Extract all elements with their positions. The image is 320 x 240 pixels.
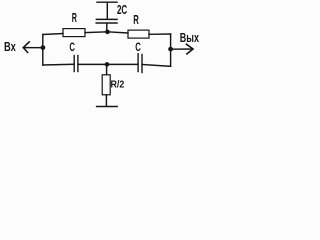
svg-text:R: R xyxy=(72,11,77,25)
capacitor 2C bottom plate xyxy=(96,22,117,24)
node dot left input junction xyxy=(41,45,46,50)
svg-text:R: R xyxy=(133,13,139,27)
capacitor C1 left plate xyxy=(73,56,75,72)
svg-text:C: C xyxy=(135,42,141,54)
capacitor 2C top lead xyxy=(106,3,108,19)
capacitor C1 right plate xyxy=(77,56,79,72)
wire bottom line left segment xyxy=(43,63,74,66)
resistor R2 (top right box) xyxy=(128,30,149,38)
capacitor 2C top plate xyxy=(96,18,117,20)
svg-text:2C: 2C xyxy=(117,3,127,17)
node dot right output junction xyxy=(168,47,173,52)
terminal bottom bar xyxy=(97,106,118,108)
wire left bus vertical xyxy=(42,35,44,66)
svg-text:C: C xyxy=(69,42,75,54)
capacitor C2 left plate xyxy=(137,54,139,72)
capacitor C2 right plate xyxy=(141,55,143,73)
input arrow shaft xyxy=(23,47,42,49)
capacitor 2C stub top T-bar xyxy=(97,1,117,3)
capacitor 2C bottom lead xyxy=(106,24,108,32)
wire right bus vertical xyxy=(170,34,172,66)
wire R/2 top lead xyxy=(106,64,108,74)
wire top line left segment xyxy=(43,34,63,35)
svg-text:R/2: R/2 xyxy=(111,79,125,91)
wire R/2 bottom lead xyxy=(105,95,107,107)
output arrow head xyxy=(186,44,193,54)
input arrow head xyxy=(23,42,29,53)
node dot R/2 junction xyxy=(105,62,110,67)
wire bottom line middle segment xyxy=(78,63,138,65)
wire bottom line right segment xyxy=(142,65,171,67)
wire top line middle segment xyxy=(85,32,128,33)
output arrow shaft xyxy=(171,48,193,50)
svg-text:Вх: Вх xyxy=(4,39,16,54)
resistor R1 (top left box) xyxy=(63,29,85,37)
node dot 2C junction xyxy=(105,30,110,35)
svg-text:Вых: Вых xyxy=(180,30,200,45)
wire top line right segment xyxy=(149,33,171,35)
resistor R/2 box xyxy=(102,75,110,95)
